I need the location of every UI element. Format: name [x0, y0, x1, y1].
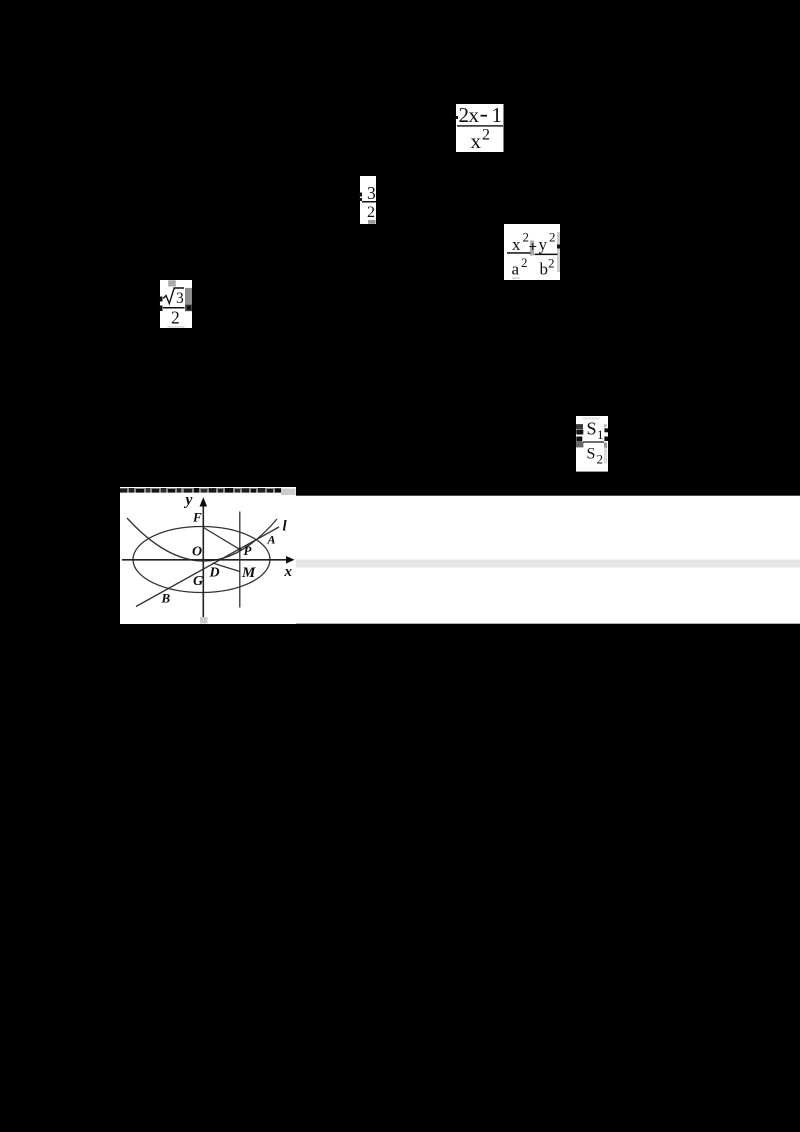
svg-text:S: S — [587, 445, 596, 462]
svg-text:2: 2 — [597, 452, 604, 467]
parabola — [127, 518, 277, 561]
svg-text:B: B — [161, 591, 171, 606]
svg-text:G: G — [193, 574, 203, 589]
svg-text:2: 2 — [549, 230, 556, 245]
figure white box — [120, 487, 296, 624]
line l — [136, 527, 279, 607]
ellipse — [133, 527, 270, 593]
svg-text:S: S — [587, 418, 597, 438]
svg-text:a: a — [512, 260, 520, 279]
labels — [161, 492, 293, 606]
svg-text:2: 2 — [482, 127, 490, 144]
svg-text:D: D — [209, 566, 220, 581]
svg-text:2: 2 — [521, 255, 528, 270]
svg-text:3: 3 — [367, 183, 376, 203]
svg-text:x: x — [512, 235, 521, 254]
svg-text:A: A — [267, 533, 276, 547]
clipped text row — [120, 488, 296, 495]
svg-text:2: 2 — [548, 256, 555, 271]
svg-text:y: y — [184, 492, 193, 509]
svg-text:2: 2 — [459, 103, 470, 127]
svg-text:2: 2 — [171, 308, 180, 328]
svg-text:1: 1 — [597, 427, 604, 442]
node P — [238, 548, 241, 551]
svg-text:x: x — [469, 103, 480, 127]
svg-text:P: P — [244, 543, 253, 558]
svg-text:M: M — [241, 565, 256, 581]
svg-text:1: 1 — [492, 103, 503, 127]
svg-text:2: 2 — [367, 204, 375, 221]
vertical line through P,M — [239, 512, 241, 608]
svg-text:O: O — [192, 545, 202, 560]
svg-text:3: 3 — [176, 290, 184, 307]
gray handle square — [200, 617, 208, 624]
svg-text:x: x — [471, 129, 482, 153]
svg-text:F: F — [192, 510, 202, 525]
svg-text:b: b — [540, 260, 549, 279]
x axis — [122, 559, 287, 561]
svg-text:y: y — [539, 235, 548, 254]
svg-text:+: + — [529, 240, 538, 256]
y axis — [202, 505, 204, 617]
segment D to M — [213, 563, 240, 572]
segment top vertex to P — [203, 528, 239, 550]
svg-text:x: x — [284, 564, 293, 580]
